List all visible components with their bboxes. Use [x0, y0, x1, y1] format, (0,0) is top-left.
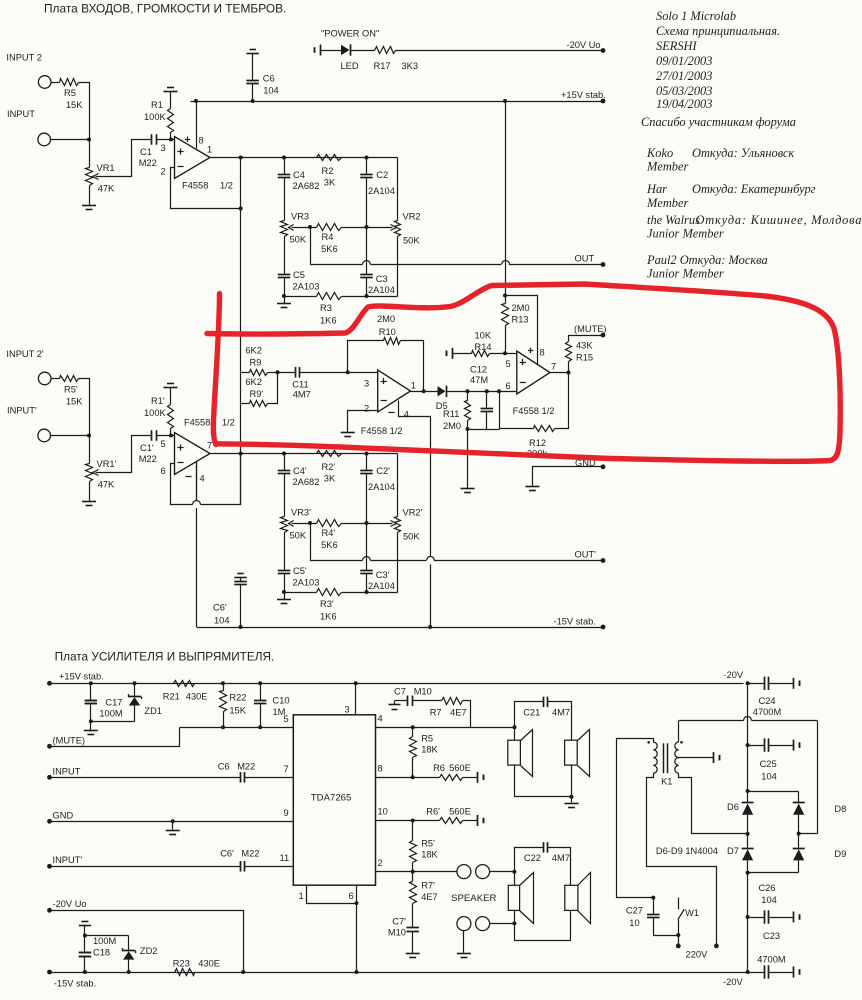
svg-text:OUT': OUT' [575, 550, 597, 560]
label R2' [322, 462, 336, 472]
label INPUT 2 [6, 52, 41, 62]
terminal C24 [794, 678, 800, 689]
pin 5 label U2B [506, 359, 511, 369]
wire out column ch1 to mixer [240, 158, 242, 505]
label 104 C6' [214, 616, 230, 626]
label 100M C18 [93, 936, 116, 946]
svg-text:5: 5 [506, 359, 511, 369]
junction TDA gnd [355, 901, 359, 905]
label 4E7 R7' [421, 892, 438, 902]
junction pin3 U2A [346, 370, 350, 374]
capacitor C1 [152, 134, 157, 145]
capacitor C7 [408, 696, 413, 707]
label C1' [140, 443, 154, 453]
label C4 [293, 170, 305, 180]
wire C10 top stub [260, 684, 262, 701]
pin 4 label U2A [404, 410, 409, 420]
junction -20Vuo rail [241, 970, 245, 974]
svg-text:9: 9 [284, 808, 289, 818]
wire wiper VR3' [292, 523, 317, 525]
resistor R1' [168, 405, 174, 429]
svg-text:R23: R23 [173, 959, 190, 969]
ground tone [277, 304, 291, 308]
svg-text:2: 2 [378, 858, 383, 868]
junction C5 bottom [282, 294, 286, 298]
label 220V [686, 950, 709, 960]
svg-text:3: 3 [161, 143, 166, 153]
svg-text:220V: 220V [686, 950, 709, 960]
junction C25 tap [746, 743, 750, 747]
svg-text:5K6: 5K6 [321, 540, 338, 550]
junction C3 bottom [365, 294, 369, 298]
junction R11 top [466, 389, 470, 393]
wire spk2 left up [515, 848, 544, 886]
label VR3 [291, 212, 309, 222]
svg-text:(MUTE): (MUTE) [53, 736, 86, 746]
resistor R14 [472, 351, 490, 357]
wire R13 top stub [505, 296, 507, 304]
ground C7 [389, 701, 401, 710]
svg-text:R1: R1 [151, 100, 163, 110]
plus mark U1B [177, 444, 183, 450]
wire gnd to C7 [395, 700, 408, 702]
hop secondary over column [744, 717, 752, 721]
svg-text:104: 104 [761, 895, 777, 905]
wire R9' right [268, 373, 278, 404]
wire top rail [47, 683, 752, 685]
connector speaker in R [476, 917, 490, 931]
op-amp U2A [378, 370, 411, 412]
junction C18 top [83, 934, 87, 938]
plus mark pin8 U2B [528, 348, 533, 353]
resistor R9' [250, 401, 268, 407]
pin 4 label TDA [378, 714, 383, 724]
pin 7 label U2B [551, 362, 556, 372]
capacitor C3' [360, 571, 373, 574]
wire C3 bottom [366, 278, 368, 297]
junction pin5 U2B [503, 351, 507, 355]
svg-text:R5: R5 [421, 734, 433, 744]
minus mark pin4 U1B [185, 476, 191, 478]
wire C18 gnd stub [84, 926, 86, 936]
label R4' [322, 528, 336, 538]
wire R11/C12 bottom link [468, 429, 500, 431]
label R15 [576, 353, 593, 363]
wire output U2A [411, 391, 438, 393]
resistor R7 [442, 698, 463, 705]
wire C2 top [366, 158, 368, 175]
svg-text:7: 7 [284, 764, 289, 774]
resistor R15 [566, 342, 572, 362]
diode D9 [793, 849, 805, 861]
minus mark pin4 U2A [388, 412, 394, 414]
svg-text:C1: C1 [140, 147, 152, 157]
label R5 [64, 88, 76, 98]
svg-text:D6: D6 [727, 802, 739, 812]
label R6 [433, 763, 445, 773]
svg-text:3: 3 [364, 379, 369, 389]
pin 11 label TDA [280, 853, 290, 863]
svg-text:10K: 10K [475, 331, 492, 341]
label 200k [527, 449, 548, 459]
pin 6 label TDA [349, 891, 354, 901]
wire to R14 [453, 353, 472, 355]
terminal power-on left [315, 45, 321, 56]
svg-text:VR1': VR1' [97, 459, 117, 469]
junction R4' right [365, 521, 369, 525]
svg-text:Плата ВХОДОВ, ГРОМКОСТИ И ТЕМБ: Плата ВХОДОВ, ГРОМКОСТИ И ТЕМБРОВ. [44, 2, 286, 16]
diode D6 [742, 803, 754, 815]
label 3K3 [402, 61, 419, 71]
ground above C18 [79, 922, 91, 926]
svg-text:-15V stab.: -15V stab. [54, 979, 96, 989]
junction C17 rail [89, 681, 93, 685]
terminal +15V stab [601, 99, 606, 104]
label R11 [443, 409, 459, 419]
svg-text:·20V: ·20V [724, 670, 744, 680]
junction C6' rail [239, 625, 243, 629]
wire secondary center tap [679, 757, 714, 759]
wire C23 right [769, 972, 794, 974]
resistor R2 [317, 155, 342, 161]
label M22' board2 [241, 849, 259, 859]
hop pin4 over feedback [196, 461, 198, 627]
ground GND terminal [525, 487, 539, 491]
label 104 [263, 86, 279, 96]
label R14 [475, 342, 492, 352]
svg-text:11: 11 [280, 853, 290, 863]
wiper arrow VR1 [93, 174, 99, 180]
svg-text:1/2: 1/2 [220, 181, 233, 191]
junction D9 link [746, 871, 750, 875]
capacitor C10 [254, 701, 267, 704]
label 1K6 [320, 316, 337, 326]
svg-text:C4': C4' [293, 466, 307, 476]
wire spk1 right up [548, 702, 572, 741]
pin 10 label TDA [378, 807, 388, 817]
junction wiper' [308, 521, 312, 525]
label GND bottom [53, 811, 74, 821]
junction C26 tap [746, 915, 750, 919]
wire C2' to R4' [366, 474, 368, 524]
capacitor C2' [360, 471, 373, 474]
wire R9 left [241, 372, 250, 374]
capacitor C27 [647, 915, 660, 918]
text Walrus member [647, 227, 724, 241]
label 10 C27 [629, 918, 639, 928]
wire R1 top [170, 92, 172, 109]
junction C12 top [485, 389, 489, 393]
junction R22 pin5 [221, 725, 225, 729]
wire bottom line left' [285, 592, 317, 594]
junction ZD1 rail [133, 681, 137, 685]
wire R1' bottom [170, 429, 172, 436]
svg-text:Откуда: Ульяновск: Откуда: Ульяновск [692, 146, 794, 160]
capacitor C6' [234, 582, 247, 585]
wire C7 to R7 [413, 700, 442, 702]
svg-text:F4558: F4558 [184, 418, 210, 428]
capacitor C18 [79, 953, 92, 957]
capacitor C4' [278, 471, 291, 474]
pin 3 label U2A [364, 379, 369, 389]
svg-text:C6': C6' [220, 849, 234, 859]
label M22 [139, 158, 157, 168]
label 2A682 [293, 181, 320, 191]
label C4' [293, 466, 307, 476]
label 4M7 C22 [552, 853, 570, 863]
wire C17 bottom [90, 704, 92, 722]
connector speaker out L [457, 865, 471, 879]
svg-text:R17: R17 [374, 61, 391, 71]
wiper arrow VR3 [289, 225, 294, 231]
wire C18 top stub [84, 936, 86, 953]
diode D7 [742, 849, 754, 861]
resistor R6 [440, 775, 463, 781]
label 18K R5 [421, 745, 438, 755]
wire C6' bottom [240, 585, 242, 628]
label 1/2 U1B [222, 418, 235, 428]
wire connector to speaker2 [490, 923, 515, 925]
label R5' board2 [421, 839, 435, 849]
wire input2 to R5 [52, 82, 60, 84]
svg-text:C22: C22 [524, 853, 541, 863]
label 15K [66, 100, 83, 110]
wire R6' to terminal [463, 820, 478, 822]
wire C24 left [748, 683, 765, 685]
label C5' [293, 566, 307, 576]
wire LED to R17 [351, 50, 375, 52]
op-amp U1B [175, 433, 211, 475]
svg-text:ZD1: ZD1 [144, 706, 162, 716]
svg-text:430E: 430E [198, 959, 220, 969]
svg-text:(MUTE): (MUTE) [574, 324, 607, 334]
wire R4' to VR2' [342, 523, 393, 525]
label 430E R23 [198, 959, 220, 969]
svg-text:R4: R4 [322, 232, 334, 242]
text SERSHI [656, 39, 697, 53]
ground R11 [461, 489, 475, 493]
wire -20V Uo line [50, 911, 244, 973]
label 2A104' bot [368, 581, 395, 591]
svg-text:15K: 15K [66, 100, 83, 110]
wire wiper VR3 [292, 227, 317, 229]
svg-text:OUT: OUT [575, 254, 595, 264]
wire VR1 wiper to C1 [96, 140, 152, 177]
pin 1 label U2A [411, 381, 416, 391]
junction C3' bottom [365, 590, 369, 594]
capacitor C23 [765, 965, 769, 978]
svg-text:100K: 100K [144, 112, 167, 122]
wire R5' top stub [412, 821, 414, 841]
pin 5 label U1B [161, 439, 166, 449]
junction R22 rail [221, 681, 225, 685]
svg-text:2A682: 2A682 [293, 477, 320, 487]
ground connector R [457, 954, 471, 958]
wire pin6 feedback ch2 right [201, 454, 241, 505]
svg-text:C7: C7 [394, 687, 406, 697]
terminal MUTE bottom [47, 744, 52, 749]
resistor R4' [317, 520, 342, 527]
wire to C11 [278, 372, 296, 374]
label 3K' [324, 474, 336, 484]
svg-text:R7': R7' [421, 881, 435, 891]
wire pin4 U2A [399, 401, 431, 557]
terminal INPUT bottom [47, 775, 52, 780]
terminal C26 [794, 912, 800, 923]
ground speaker 1 [565, 804, 579, 808]
svg-text:4700M: 4700M [753, 707, 781, 717]
label (MUTE) bottom [53, 736, 86, 746]
label 2A682' [293, 477, 320, 487]
junction AC1 [746, 832, 750, 836]
junction C5' bottom [282, 590, 286, 594]
resistor R23 [175, 969, 195, 976]
svg-text:C10: C10 [273, 696, 290, 706]
wire spk2 right up [548, 848, 571, 886]
label 1/2 U1A [220, 181, 233, 191]
svg-text:R15: R15 [576, 353, 593, 363]
potentiometer VR1 [86, 168, 93, 186]
svg-text:1: 1 [299, 891, 304, 901]
wire VR1 to ground [89, 186, 91, 206]
pin 1 label [207, 145, 212, 155]
label 50K VR2 [403, 236, 420, 246]
wire R7' top stub [412, 872, 414, 882]
wire input' to junction [51, 435, 90, 437]
junction gnd ground [171, 819, 175, 823]
phase dot secondary [680, 741, 683, 744]
minus mark U1A [177, 166, 183, 168]
wire C12 top stub [486, 392, 488, 409]
junction R11 bottom [466, 427, 470, 431]
junction output U2B [567, 371, 571, 375]
svg-text:D8: D8 [834, 804, 846, 814]
svg-text:2A104: 2A104 [368, 285, 395, 295]
resistor R10 [384, 338, 401, 345]
wire ZD1 top [134, 684, 136, 697]
svg-text:Откуда: Екатеринбург: Откуда: Екатеринбург [692, 182, 816, 196]
wire spk1 left up [515, 702, 544, 741]
wire connector to speaker1 [490, 871, 515, 873]
wire OUT' line [310, 557, 603, 561]
svg-text:4M7: 4M7 [293, 390, 311, 400]
svg-text:Спасибо участникам форума: Спасибо участникам форума [641, 115, 796, 129]
svg-text:+15V stab.: +15V stab. [561, 90, 606, 100]
capacitor C25 [765, 738, 769, 751]
svg-text:50K: 50K [290, 531, 307, 541]
label C6' [213, 603, 227, 613]
label C26 value [761, 895, 777, 905]
wire power-on to LED [321, 50, 342, 52]
capacitor C4 [278, 175, 291, 178]
label D8 [834, 804, 846, 814]
wire C5 top [284, 237, 286, 275]
label 1M C10 [273, 707, 286, 717]
wire pin2 U2A to ground [348, 411, 378, 433]
label 1K6' [320, 612, 337, 622]
wire C6' top [240, 578, 242, 582]
svg-text:6K2: 6K2 [245, 346, 262, 356]
plus mark pin8 [185, 137, 190, 142]
pin 8 label TDA [378, 764, 383, 774]
svg-text:50K: 50K [403, 236, 420, 246]
junction R5 top [411, 725, 415, 729]
capacitor C6 [246, 81, 259, 84]
wire R12 loop [500, 392, 534, 429]
label 560E R6 [449, 763, 471, 773]
svg-text:6K2: 6K2 [245, 377, 262, 387]
text Koko [646, 146, 673, 160]
svg-text:-20V Uo: -20V Uo [567, 40, 601, 50]
wire C17 ground stub [90, 722, 92, 731]
wire input to junction [51, 139, 90, 141]
label C3' [376, 570, 390, 580]
wire C3 top [366, 228, 368, 275]
pin 2 label TDA [378, 858, 383, 868]
label C17 [105, 698, 122, 708]
svg-text:Paul2 Откуда: Москва: Paul2 Откуда: Москва [646, 253, 768, 267]
junction speaker2 wire [512, 921, 516, 925]
wire D8 column top [798, 792, 800, 803]
svg-text:18K: 18K [421, 850, 438, 860]
wire ZD2 bottom stub [128, 960, 130, 973]
svg-text:C11: C11 [292, 380, 308, 390]
label R5 board2 [421, 734, 433, 744]
svg-text:C3: C3 [376, 274, 388, 284]
svg-text:INPUT 2': INPUT 2' [6, 349, 43, 359]
junction C4' top [282, 452, 286, 456]
label (MUTE) top [574, 324, 607, 334]
svg-text:4M7: 4M7 [552, 853, 570, 863]
label C3 [376, 274, 388, 284]
svg-text:18K: 18K [421, 745, 438, 755]
label C25 [760, 759, 777, 769]
label 50K VR2' [403, 532, 420, 542]
svg-text:1: 1 [207, 145, 212, 155]
svg-text:Откуда: Кишинее, Молдова: Откуда: Кишинее, Молдова [696, 213, 862, 227]
wire pin4 line [376, 727, 515, 729]
diode D8 [793, 803, 805, 815]
label R21 [163, 692, 180, 702]
label C2' [376, 466, 390, 476]
label C11 [292, 380, 308, 390]
label C18 [93, 948, 110, 958]
svg-text:M22: M22 [237, 762, 255, 772]
wire ZD1 bottom [134, 706, 136, 722]
connector INPUT 2 [38, 76, 51, 89]
svg-text:5: 5 [284, 714, 289, 724]
text Har member [646, 196, 688, 210]
svg-text:7: 7 [207, 441, 212, 451]
label C23 value [757, 955, 785, 965]
red marker loop left edge [213, 294, 219, 445]
wiper arrow VR1' [93, 470, 99, 476]
text Har from [692, 182, 816, 196]
resistor R4 [317, 224, 342, 231]
svg-text:C2': C2' [376, 466, 390, 476]
svg-text:LED: LED [341, 61, 359, 71]
svg-text:10: 10 [629, 918, 639, 928]
junction R13 top [503, 294, 507, 298]
label 6K2 R9' [245, 377, 262, 387]
potentiometer VR1' [86, 464, 93, 482]
wire pin5 line [180, 727, 294, 729]
svg-text:5K6: 5K6 [321, 244, 338, 254]
pin 8 label U2B [540, 348, 545, 358]
junction +15V / C6 [251, 99, 255, 103]
resistor R17 [375, 47, 396, 54]
wire spk1 right down [571, 766, 573, 797]
